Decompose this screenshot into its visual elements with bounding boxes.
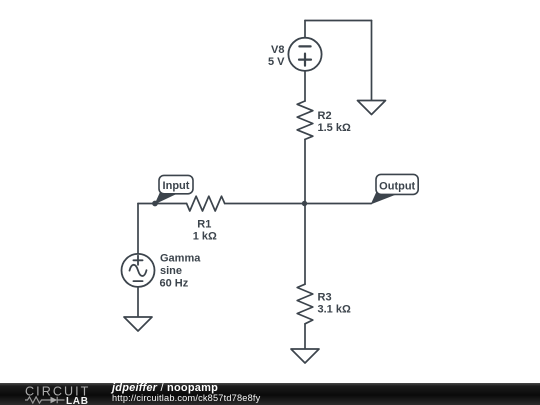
logo resistor squiggle [25,397,44,403]
logo diode symbol [51,397,58,404]
Input flag tail [155,189,177,204]
V8 minus sign [299,45,310,47]
wire V8 top to corner [304,21,306,38]
wire V8 to R2 [304,71,306,101]
node dot Input [152,201,158,207]
ground (bottom left) [124,317,152,331]
wire top horizontal [305,20,372,22]
svg-text:LAB: LAB [66,396,89,405]
voltage source V8 circle [288,38,321,71]
Gamma plus sign [133,256,142,265]
svg-text:http://circuitlab.com/ck857td7: http://circuitlab.com/ck857td78e8fy [112,393,261,403]
wire R1 to Output [225,203,372,205]
wire Gamma to ground [137,287,139,317]
footer bar [0,383,540,405]
Gamma minus sign [133,280,142,282]
wire Input corner down to source [137,204,139,255]
wire right vertical down to ground [371,21,373,101]
ground (top right) [358,101,386,115]
voltage source Gamma circle [122,254,155,287]
junction dot [302,201,307,206]
wire R3 to ground [304,324,306,349]
resistor R3 [297,284,313,324]
resistor R1 [187,196,225,211]
Input flag box [159,175,193,193]
Output flag box [376,174,418,194]
V8 plus sign [299,54,311,66]
Gamma sine wave [130,265,147,276]
wire R2 to R3 through junction [304,139,306,284]
wire Input node to R1 [138,203,187,205]
ground (bottom center) [291,349,319,363]
Output flag tail [371,189,397,205]
resistor R2 [297,101,313,139]
